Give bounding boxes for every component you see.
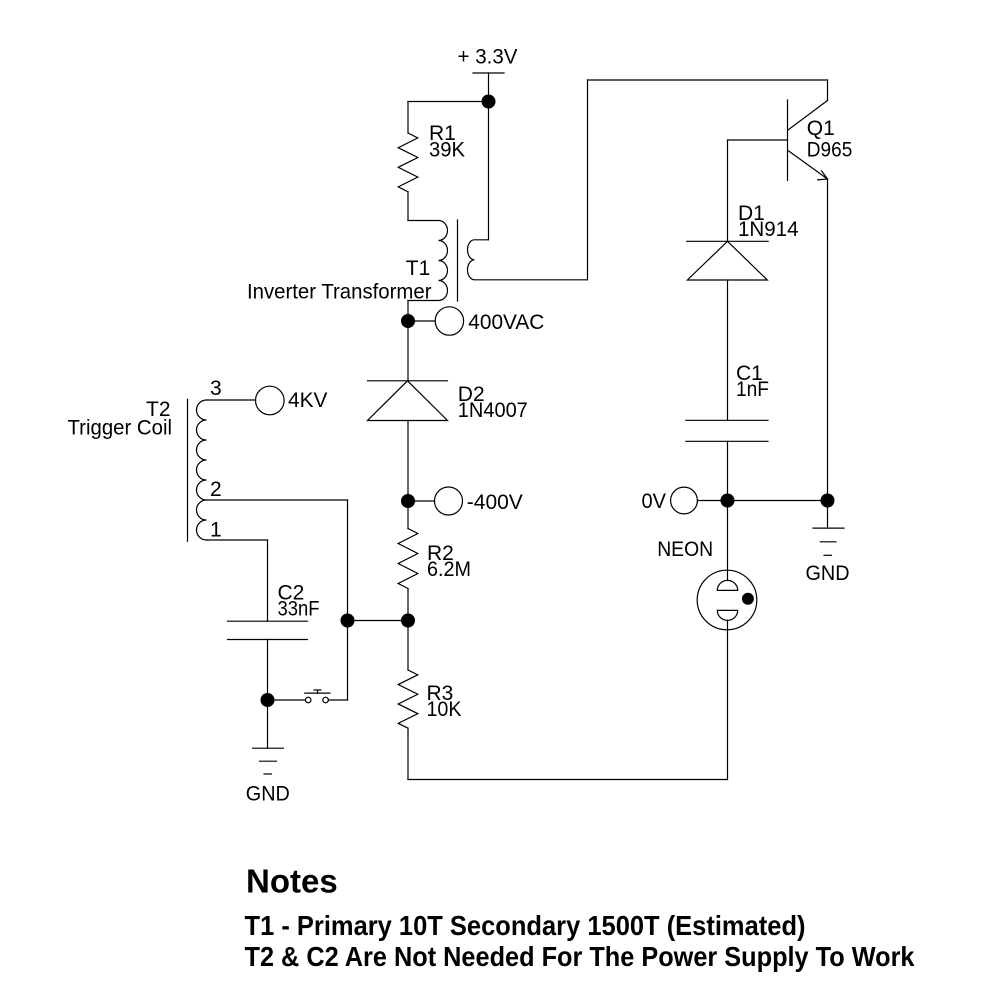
svg-text:1N914: 1N914 bbox=[738, 218, 799, 241]
svg-text:2: 2 bbox=[210, 478, 222, 501]
svg-text:Inverter Transformer: Inverter Transformer bbox=[247, 281, 432, 304]
svg-text:T1 - Primary 10T Secondary 150: T1 - Primary 10T Secondary 1500T (Estima… bbox=[245, 910, 806, 941]
svg-text:NEON: NEON bbox=[657, 538, 713, 561]
svg-text:D965: D965 bbox=[807, 138, 853, 161]
svg-text:6.2M: 6.2M bbox=[427, 558, 471, 581]
svg-text:-400V: -400V bbox=[467, 491, 523, 514]
svg-text:33nF: 33nF bbox=[278, 598, 320, 621]
svg-text:1: 1 bbox=[210, 519, 222, 542]
svg-text:10K: 10K bbox=[427, 698, 462, 721]
svg-text:GND: GND bbox=[246, 783, 290, 806]
svg-text:4KV: 4KV bbox=[288, 389, 328, 412]
svg-text:400VAC: 400VAC bbox=[468, 311, 544, 334]
svg-text:Notes: Notes bbox=[246, 863, 338, 900]
svg-text:Trigger Coil: Trigger Coil bbox=[68, 417, 173, 440]
svg-text:1N4007: 1N4007 bbox=[458, 399, 528, 422]
svg-text:1nF: 1nF bbox=[736, 378, 769, 401]
svg-text:T1: T1 bbox=[406, 257, 431, 280]
svg-text:0V: 0V bbox=[642, 490, 667, 513]
svg-text:+ 3.3V: + 3.3V bbox=[458, 45, 518, 68]
svg-text:T2 & C2 Are Not Needed For The: T2 & C2 Are Not Needed For The Power Sup… bbox=[245, 941, 915, 972]
svg-text:Q1: Q1 bbox=[807, 117, 835, 140]
svg-text:39K: 39K bbox=[429, 138, 465, 161]
svg-text:3: 3 bbox=[210, 377, 222, 400]
svg-text:GND: GND bbox=[806, 562, 850, 585]
